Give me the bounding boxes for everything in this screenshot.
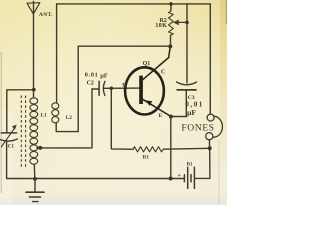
node: L1 tap <box>38 146 42 150</box>
capacitor C2 curved plate <box>103 81 105 95</box>
wire: C2 left lead <box>92 88 99 90</box>
antenna ANT lead <box>33 1 35 98</box>
svg-text:FONES: FONES <box>181 123 214 134</box>
transistor Q1 <box>125 47 171 117</box>
wire: L2 bottom to collector line <box>56 46 170 131</box>
node: collector <box>168 44 172 48</box>
wire: emitter down to battery <box>170 117 172 179</box>
antenna symbol <box>27 3 40 14</box>
capacitor C1 curved plate <box>1 139 18 141</box>
wire: L1 bottom to rail <box>33 164 36 178</box>
phones cord arc <box>213 116 222 137</box>
wire: antenna node to C1 <box>7 90 34 133</box>
svg-text:L1: L1 <box>41 112 47 118</box>
svg-text:ANT.: ANT. <box>39 12 53 18</box>
svg-text:E: E <box>159 113 163 119</box>
svg-text:0.01: 0.01 <box>85 71 99 78</box>
wire: bottom rail <box>7 178 185 180</box>
R2 wiper arrow <box>177 21 187 23</box>
wire: emitter node right <box>171 116 186 118</box>
capacitor C2 flat plate <box>98 81 100 95</box>
resistor R2 <box>170 4 172 11</box>
wire: R1 to phones node <box>163 147 209 150</box>
resistor R1 <box>133 147 163 152</box>
R2 wiper arrowhead <box>173 20 179 26</box>
node: phones bottom <box>208 146 212 150</box>
node: antenna/C1/L1 <box>32 88 36 92</box>
wire: right rail <box>209 4 211 114</box>
wire: wiper line top rail to C3 <box>186 4 188 83</box>
coil L1 loops <box>30 98 38 104</box>
svg-text:µF: µF <box>187 108 196 117</box>
capacitor C3 flat plate <box>177 89 196 91</box>
capacitor C1 top plate <box>1 132 16 134</box>
svg-text:C1: C1 <box>8 144 15 150</box>
node: wiper <box>185 21 189 25</box>
background paper <box>0 0 227 205</box>
node: L1 bottom/ground <box>33 177 37 181</box>
node: battery left <box>169 177 173 181</box>
wire: top rail <box>57 3 211 5</box>
svg-text:L2: L2 <box>66 115 72 121</box>
Q1 collector lead <box>143 47 171 80</box>
C1 arrowhead <box>12 125 17 130</box>
node: base <box>110 87 114 91</box>
phones jack top ring <box>207 114 214 121</box>
wire: C2 to base <box>104 87 140 89</box>
svg-text:R1: R1 <box>143 155 150 161</box>
wire: phones bottom to node <box>208 140 210 149</box>
svg-text:B: B <box>122 83 126 89</box>
iron core (dashed lines) <box>20 96 22 170</box>
battery B1 plates <box>183 175 185 182</box>
capacitor C1 arrow <box>1 127 15 147</box>
coil L2 loops <box>52 103 59 109</box>
Q1 base bar <box>139 76 143 104</box>
wire: left vertical from top rail to L2 <box>56 4 58 103</box>
wire: base node down to R1 <box>111 88 133 149</box>
capacitor C3 curved plate <box>177 82 197 85</box>
wire: C3 bottom stub <box>185 91 187 117</box>
svg-text:C2: C2 <box>87 80 94 86</box>
phones jack bottom ring <box>206 133 213 140</box>
Q1 emitter arrow (PNP) <box>145 100 152 106</box>
svg-text:µF: µF <box>100 72 108 79</box>
svg-text:+: + <box>177 173 181 179</box>
svg-text:C: C <box>161 70 165 76</box>
svg-text:10K: 10K <box>155 22 167 29</box>
node: R2 top <box>169 2 173 6</box>
wire: C1 bottom to rail <box>6 141 8 178</box>
wire: node down to battery right <box>195 148 210 178</box>
ground <box>34 179 36 192</box>
svg-text:B1: B1 <box>187 163 193 168</box>
Q1 emitter lead <box>142 99 171 117</box>
wire: L1 tap to C2 <box>37 89 92 148</box>
node: emitter <box>169 115 173 119</box>
page edge lines <box>0 52 2 193</box>
svg-text:Q1: Q1 <box>143 61 151 67</box>
